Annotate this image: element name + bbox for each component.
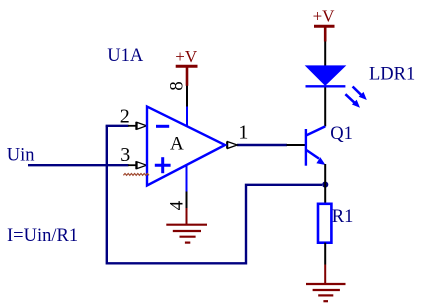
svg-text:1: 1 — [238, 122, 248, 144]
svg-text:Q1: Q1 — [330, 124, 353, 144]
svg-text:Uin: Uin — [7, 146, 35, 166]
svg-text:+V: +V — [175, 47, 198, 66]
svg-text:3: 3 — [120, 144, 130, 166]
svg-text:8: 8 — [166, 81, 187, 91]
svg-text:2: 2 — [120, 105, 130, 127]
svg-text:LDR1: LDR1 — [369, 65, 415, 85]
svg-text:+V: +V — [313, 7, 336, 26]
svg-text:4: 4 — [166, 200, 187, 210]
svg-text:U1A: U1A — [107, 46, 144, 66]
svg-text:R1: R1 — [332, 207, 354, 227]
svg-text:A: A — [170, 134, 184, 155]
svg-text:I=Uin/R1: I=Uin/R1 — [7, 226, 78, 246]
